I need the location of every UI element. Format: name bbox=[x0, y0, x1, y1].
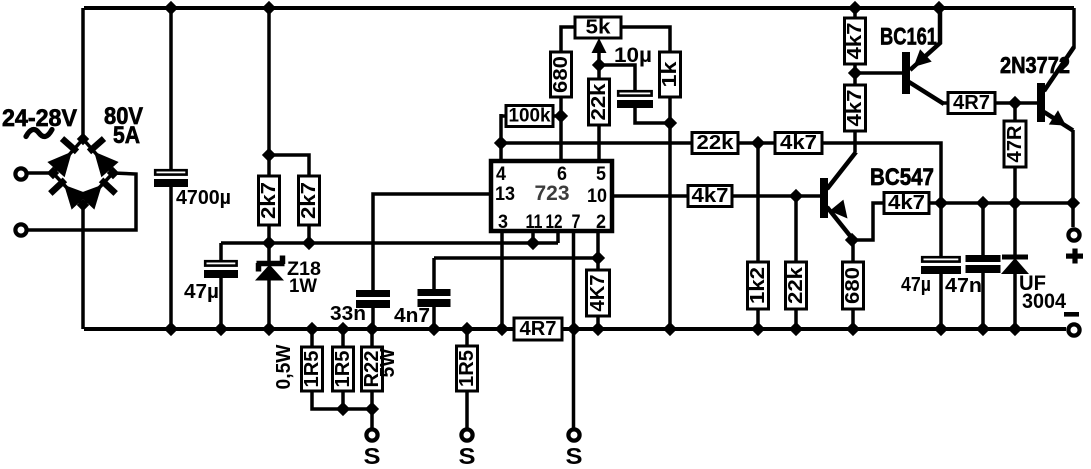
wire wiper node to 10u bbox=[599, 65, 635, 90]
wire BC547 collector to 4k7 stack bbox=[853, 131, 857, 152]
junction bridge top vertex bbox=[78, 134, 89, 145]
wire 5k to 1k bbox=[621, 27, 670, 52]
wire 1k2 top bbox=[756, 143, 760, 262]
resistor 680 (top) bbox=[550, 52, 572, 97]
wire output to C3 bbox=[939, 203, 943, 256]
capacitor C1 4700u bbox=[154, 170, 188, 187]
resistor 2k7 (left) bbox=[258, 176, 280, 225]
svg-text:7: 7 bbox=[572, 212, 581, 233]
svg-text:2N3772: 2N3772 bbox=[1000, 52, 1070, 78]
capacitor 4n7 bbox=[418, 289, 451, 307]
resistor 22k (wiper) bbox=[588, 79, 610, 125]
wire 47R top bbox=[1013, 103, 1017, 121]
terminal S2 bbox=[461, 429, 472, 440]
wire bridge - vertex to bottom rail bbox=[81, 205, 85, 329]
junction bridge right vertex bbox=[108, 168, 119, 179]
junction 47R node bbox=[1009, 97, 1022, 110]
wire wiper to 22k bbox=[597, 65, 601, 79]
svg-text:4k7: 4k7 bbox=[888, 192, 925, 214]
svg-text:3004: 3004 bbox=[1022, 290, 1066, 313]
transistor Q2 BC161 (PNP) bbox=[902, 8, 944, 104]
junction bottom rail x598 bbox=[592, 323, 605, 336]
svg-text:47µ: 47µ bbox=[184, 281, 219, 303]
junction BC547 emitter node bbox=[846, 234, 859, 247]
wire top rail to 2k7 pair bbox=[267, 8, 271, 176]
wire rail to R22 bbox=[370, 329, 374, 347]
bridge rectifier B1 diode bottom-to-right bbox=[83, 173, 113, 205]
potentiometer 5k bbox=[575, 17, 621, 39]
wire C3 to rail bbox=[939, 274, 943, 329]
svg-text:1R5: 1R5 bbox=[301, 351, 323, 388]
wire 2N3772 emitter to output node bbox=[1071, 130, 1075, 203]
wire stack mid bbox=[853, 64, 857, 85]
junction output x1074 bbox=[1067, 197, 1080, 210]
svg-text:4k7: 4k7 bbox=[844, 23, 866, 60]
svg-text:5W: 5W bbox=[377, 348, 399, 377]
AC input terminal 1 bbox=[15, 168, 26, 179]
svg-text:22k: 22k bbox=[785, 266, 807, 304]
junction bottom rail x758 bbox=[752, 323, 765, 336]
junction bottom rail x372 bbox=[366, 323, 379, 336]
capacitor C3 47u bbox=[921, 257, 961, 274]
svg-text:5k: 5k bbox=[586, 17, 612, 39]
wire sense bus bbox=[312, 391, 372, 428]
wire 1R5 b to bus bbox=[341, 391, 345, 409]
capacitor C2 47u bbox=[204, 261, 238, 278]
capacitor 10u bbox=[617, 91, 653, 108]
terminal + output bbox=[1068, 229, 1079, 240]
wire top rail to bridge + vertex bbox=[81, 8, 85, 139]
wire left 2k7 to Vref line bbox=[267, 225, 271, 243]
wire output node to + terminal bbox=[1071, 203, 1075, 227]
junction bottom rail x269 bbox=[263, 323, 276, 336]
wire pin2 line down to 4n7 bbox=[432, 258, 436, 289]
wire BC161 collector to 4R7 bbox=[942, 101, 950, 105]
junction output x983 bbox=[977, 197, 990, 210]
transistor Q3 2N3772 bbox=[1037, 47, 1074, 131]
junction bottom rail x853 bbox=[847, 323, 860, 336]
junction bottom rail x983 bbox=[977, 323, 990, 336]
junction Vref x269 bbox=[263, 237, 276, 250]
wire top rail to 4k7 stack bbox=[853, 8, 857, 18]
junction bottom rail x312 bbox=[306, 323, 319, 336]
wire rail to 1R5 c bbox=[465, 329, 469, 346]
wire 22k to IC pin 5 bbox=[597, 125, 601, 161]
resistor 1R5 (b) bbox=[332, 347, 354, 391]
wire top supply rail bbox=[84, 6, 1074, 10]
resistor 1R5 (a) bbox=[301, 347, 323, 391]
wire IC pin 11 to Vref bbox=[531, 231, 535, 243]
junction top rail x939 bbox=[933, 2, 946, 15]
capacitor 47n bbox=[966, 255, 1001, 273]
resistor 1k2 bbox=[747, 262, 769, 309]
junction output x1015 bbox=[1009, 197, 1022, 210]
wire 4R7 to 2N3772 base bbox=[995, 101, 1037, 105]
svg-text:10µ: 10µ bbox=[614, 44, 652, 67]
junction wiper node bbox=[593, 59, 606, 72]
svg-text:S: S bbox=[566, 443, 583, 469]
wire 100k right lead bbox=[553, 114, 561, 118]
wire 10u to 1k node bbox=[635, 108, 670, 123]
transistor Q1 BC547 bbox=[820, 152, 856, 240]
resistor 4k7 (stack top) bbox=[844, 18, 866, 64]
wire 33n to bottom rail bbox=[371, 308, 375, 329]
svg-text:1W: 1W bbox=[289, 276, 317, 297]
wire rail to 1R5 b bbox=[341, 329, 345, 347]
svg-text:47R: 47R bbox=[1004, 125, 1026, 163]
junction bridge bottom vertex bbox=[78, 200, 89, 211]
wire 1R5 c to S2 bbox=[465, 391, 469, 428]
junction 2k7 pair top bbox=[263, 149, 276, 162]
svg-text:S: S bbox=[364, 443, 381, 469]
junction 4k7 stack mid bbox=[849, 67, 862, 80]
svg-text:BC547: BC547 bbox=[870, 164, 934, 191]
wire output to 47n bbox=[981, 203, 985, 255]
junction bottom rail x467 bbox=[461, 323, 474, 336]
junction bottom rail x434 bbox=[428, 323, 441, 336]
wire IC pin13 line bbox=[373, 194, 491, 290]
junction pin6 node bbox=[555, 110, 568, 123]
wire AC1 to bridge left bbox=[28, 171, 53, 175]
svg-text:1R5: 1R5 bbox=[332, 351, 354, 388]
wire IC pin 6 up bbox=[559, 116, 563, 161]
svg-text:100k: 100k bbox=[509, 106, 551, 127]
svg-text:4: 4 bbox=[496, 164, 506, 185]
svg-text:47µ: 47µ bbox=[901, 274, 931, 296]
svg-text:5A: 5A bbox=[113, 122, 140, 149]
junction bridge left vertex bbox=[48, 168, 59, 179]
resistor 4k7 (stack bottom) bbox=[844, 85, 866, 131]
junction output x941 bbox=[935, 197, 948, 210]
resistor 47R bbox=[1004, 121, 1026, 167]
wire right 2k7 to Vref line bbox=[307, 225, 311, 243]
junction bottom rail x1015 bbox=[1009, 323, 1022, 336]
svg-text:4k7: 4k7 bbox=[780, 132, 817, 154]
resistor 22k (series) bbox=[692, 132, 738, 154]
svg-text:22k: 22k bbox=[588, 83, 610, 121]
bridge rectifier B1 diode left-to-top bbox=[53, 139, 83, 173]
junction BC547 base node bbox=[790, 190, 803, 203]
resistor 22k (base) bbox=[785, 262, 807, 309]
wire IC pin 10 to 4k7 bbox=[612, 194, 690, 198]
wire IC pin 12 to Vref bbox=[556, 231, 560, 243]
wire IC pin 3 to rail bbox=[500, 231, 504, 329]
wire output to UF3004 bbox=[1013, 203, 1017, 257]
wire 4K7 to rail bbox=[596, 316, 600, 329]
svg-text:4R7: 4R7 bbox=[953, 92, 990, 114]
junction x758 y143 bbox=[752, 137, 765, 150]
junction 1k node bbox=[664, 117, 677, 130]
pot wiper arrow bbox=[592, 38, 607, 65]
wire 4n7 to bottom rail bbox=[432, 307, 436, 329]
wire emitter node to 4k7 box bbox=[852, 203, 886, 240]
wire emitter node to 680 bbox=[851, 240, 855, 262]
svg-text:11: 11 bbox=[526, 212, 543, 233]
svg-text:4k7: 4k7 bbox=[844, 90, 866, 127]
wire pin4 node to 22k box bbox=[501, 141, 694, 145]
wire IC pin2 line bbox=[434, 256, 598, 260]
wire output line bbox=[929, 201, 1074, 205]
wire Vref line down to C2 bbox=[219, 243, 223, 260]
wire 47R to output line bbox=[1013, 167, 1017, 203]
resistor 4k7 (series) bbox=[775, 132, 822, 154]
terminal S1 bbox=[366, 429, 377, 440]
capacitor 33n bbox=[356, 290, 390, 308]
junction bus x343 bbox=[337, 403, 350, 416]
resistor R22 bbox=[361, 347, 383, 391]
wire IC pin 4 up bbox=[499, 114, 503, 161]
wire 47n to rail bbox=[981, 273, 985, 329]
wire Vref line to IC pins 11 12 bbox=[221, 241, 558, 245]
svg-text:13: 13 bbox=[495, 184, 515, 205]
svg-text:2: 2 bbox=[596, 212, 606, 233]
AC input terminal 2 bbox=[15, 224, 26, 235]
resistor 1R5 (c) bbox=[456, 346, 478, 391]
junction bottom rail x941 bbox=[935, 323, 948, 336]
svg-text:2k7: 2k7 bbox=[298, 182, 320, 219]
svg-text:4K7: 4K7 bbox=[587, 275, 609, 312]
junction bottom rail x796 bbox=[790, 323, 803, 336]
svg-text:12: 12 bbox=[546, 212, 563, 233]
wire 1k node to bottom rail bbox=[668, 123, 672, 329]
svg-text:4k7: 4k7 bbox=[692, 185, 729, 207]
wire top rail right corner to 2N3772 collector bbox=[1072, 8, 1076, 48]
svg-text:3: 3 bbox=[498, 212, 508, 233]
resistor 4k7 (pin10) bbox=[688, 185, 732, 207]
zener diode Z18 bbox=[255, 256, 285, 281]
junction bottom rail x574 bbox=[568, 323, 581, 336]
svg-text:4n7: 4n7 bbox=[394, 305, 430, 327]
wire 680 to 5k bbox=[561, 27, 577, 52]
wire 680 to rail bbox=[851, 309, 855, 329]
svg-text:680: 680 bbox=[550, 56, 572, 93]
resistor 100k bbox=[506, 106, 553, 127]
junction bottom rail x670 bbox=[664, 323, 677, 336]
bridge rectifier B1 diode bottom-to-left bbox=[53, 173, 83, 205]
wire 100k left lead bbox=[501, 114, 508, 118]
resistor 4k7 (emitter) bbox=[884, 192, 929, 214]
wire 4k7 to output node bbox=[822, 143, 941, 203]
resistor 4K7 (pin2) bbox=[587, 270, 610, 316]
wire C1 to bottom rail bbox=[169, 187, 173, 329]
junction top rail x171 bbox=[165, 2, 178, 15]
wire zener to bottom rail bbox=[267, 279, 271, 329]
svg-text:680: 680 bbox=[842, 267, 864, 304]
wire pin2 node to 4K7 bbox=[596, 258, 600, 270]
svg-text:4700µ: 4700µ bbox=[176, 187, 231, 209]
bridge rectifier B1 diode right-to-top bbox=[83, 139, 113, 173]
junction Vref x309 bbox=[303, 237, 316, 250]
svg-text:723: 723 bbox=[535, 182, 570, 205]
junction pin2 node bbox=[592, 252, 605, 265]
svg-text:10: 10 bbox=[587, 186, 607, 207]
wire 22k to 4k7 bbox=[738, 141, 777, 145]
junction bus x372 bbox=[366, 403, 379, 416]
junction bottom rail x343 bbox=[337, 323, 350, 336]
wire 680 bottom bbox=[559, 97, 563, 116]
wire IC pin 2 down bbox=[596, 231, 600, 258]
wire BC161 base bbox=[855, 71, 903, 75]
wire rail to 1R5 a bbox=[310, 329, 314, 347]
AC tilde symbol bbox=[26, 129, 52, 136]
svg-text:0,5W: 0,5W bbox=[273, 344, 295, 389]
junction bottom rail x502 bbox=[496, 323, 509, 336]
wire bottom negative rail bbox=[84, 327, 1066, 331]
junction top rail x269 bbox=[263, 2, 276, 15]
svg-text:1k2: 1k2 bbox=[747, 267, 769, 304]
wire 4k7 to BC547 base bbox=[732, 194, 820, 198]
resistor 1k bbox=[659, 52, 681, 97]
svg-text:33n: 33n bbox=[330, 303, 366, 325]
junction bottom rail x221 bbox=[215, 323, 228, 336]
svg-text:22k: 22k bbox=[697, 132, 735, 154]
wire 22k to rail bbox=[794, 309, 798, 329]
resistor 680 (bottom) bbox=[842, 262, 864, 309]
wire R22 to bus bbox=[370, 391, 374, 409]
svg-text:47n: 47n bbox=[945, 275, 982, 297]
wire IC pin 7 to rail and S3 bbox=[572, 231, 576, 428]
resistor 4R7 (driver) bbox=[948, 92, 995, 114]
svg-text:5: 5 bbox=[596, 164, 606, 185]
resistor 2k7 (right) bbox=[298, 176, 320, 225]
terminal S3 bbox=[568, 429, 579, 440]
wire 1k2 to rail bbox=[756, 309, 760, 329]
svg-text:1k: 1k bbox=[659, 60, 681, 87]
wire Vref to zener bbox=[267, 243, 271, 262]
wire top rail to C1 bbox=[169, 8, 173, 169]
label + sign bbox=[1066, 249, 1083, 264]
wire 1k bottom bbox=[668, 97, 672, 123]
wire UF3004 to rail bbox=[1013, 273, 1017, 329]
svg-text:1R5: 1R5 bbox=[456, 350, 478, 387]
op-amp regulator U1 723 bbox=[491, 161, 612, 231]
svg-text:2k7: 2k7 bbox=[258, 182, 280, 219]
junction bottom rail x171 bbox=[165, 323, 178, 336]
wire AC2 to bridge right bbox=[28, 173, 136, 230]
wire 2k7 top link bbox=[269, 155, 309, 176]
svg-text:4R7: 4R7 bbox=[520, 318, 557, 340]
resistor 4R7 (rail) bbox=[514, 318, 562, 340]
svg-text:24-28V: 24-28V bbox=[2, 105, 77, 132]
svg-text:S: S bbox=[459, 443, 476, 469]
wire base node to 22k bbox=[794, 196, 798, 262]
junction top rail x855 bbox=[849, 2, 862, 15]
terminal - output bbox=[1068, 324, 1079, 335]
label - sign bbox=[1064, 312, 1079, 317]
junction pin4 node bbox=[495, 137, 508, 150]
diode UF3004 bbox=[1001, 257, 1029, 274]
wire C2 to bottom rail bbox=[219, 278, 223, 329]
junction Vref x533 bbox=[527, 237, 540, 250]
svg-text:BC161: BC161 bbox=[880, 24, 937, 51]
